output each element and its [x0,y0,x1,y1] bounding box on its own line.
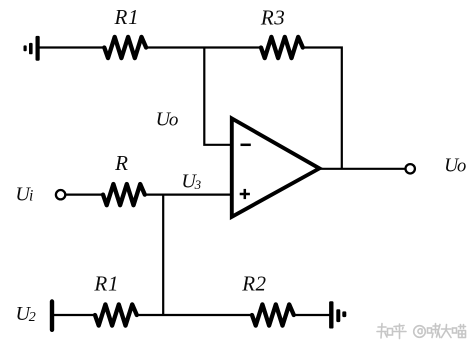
wire bottom rail from R2 to GND2 [294,314,330,316]
wire output from op-amp [319,168,405,170]
terminal U2 (bar) [50,302,54,330]
大 [442,325,452,338]
乎 [393,324,407,339]
svg-text:R1: R1 [93,272,119,296]
wire top rail from GND1 to R1 [39,46,105,48]
op-amp inverting input marker (minus) [241,144,251,147]
svg-text:Ui: Ui [15,183,33,205]
watermark 知乎 @嗷大喵 [377,324,466,339]
svg-text:R: R [114,151,128,175]
嗷 [428,328,432,333]
wire feedback: down from top rail to inverting input [204,47,232,145]
op-amp non-inverting input marker (plus) [240,189,250,199]
resistor R1 [104,37,146,58]
resistor R2 [252,304,294,325]
svg-text:Uo: Uo [156,108,179,130]
wire top rail right of R3 and down to output [303,48,342,169]
resistor R1 (bottom) [95,304,137,325]
resistor R [103,184,145,205]
wire top rail from R1 to R3 [146,46,261,48]
terminal output (circle) [406,164,415,173]
知 [377,324,387,339]
op-amp U1 [232,118,320,216]
@ [414,326,426,338]
wire bottom rail from R1 to R2 [137,314,252,316]
ground GND1 (left, facing left) [24,36,40,61]
ground GND2 (right, facing right) [329,301,346,328]
svg-text:R2: R2 [241,271,266,295]
svg-text:Uo: Uo [444,155,466,176]
wire bottom rail from U2 bar to R1 [53,314,95,316]
wire from R to non-inverting input [145,194,232,196]
terminal input Ui (circle) [56,190,65,199]
svg-text:R1: R1 [114,5,140,29]
wire from Ui terminal to R [66,194,104,196]
wire node U3 down to bottom rail [162,195,164,315]
svg-text:R3: R3 [260,5,286,29]
喵 [453,328,457,333]
resistor R3 [261,37,303,58]
